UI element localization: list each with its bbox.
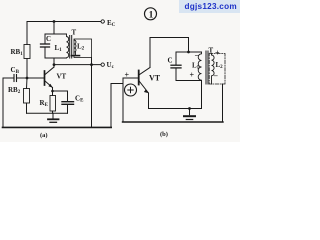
transistor VT (b) xyxy=(138,71,140,85)
wire emitter bottom (a) xyxy=(27,112,68,114)
svg-text:(a): (a) xyxy=(40,132,48,139)
svg-text:T: T xyxy=(72,29,77,37)
resistor RE xyxy=(52,91,54,96)
svg-text:(b): (b) xyxy=(160,131,168,138)
wire left edge (b) xyxy=(123,78,138,122)
inductor L1 coil (b) xyxy=(198,52,201,81)
capacitor C plates xyxy=(41,43,50,45)
svg-text:VT: VT xyxy=(57,73,67,81)
dash-dot box around L2 (b) xyxy=(209,54,225,85)
transistor VT (a) xyxy=(44,71,46,85)
resistor RB2 xyxy=(26,78,29,89)
resistor RB1 xyxy=(26,22,28,45)
watermark background xyxy=(179,0,240,13)
wire output Uc (a) xyxy=(54,64,101,66)
svg-text:C: C xyxy=(46,35,51,43)
svg-text:−: − xyxy=(195,51,200,60)
node junction on top rail xyxy=(53,20,56,23)
wire top rail (b) xyxy=(150,37,189,39)
svg-text:dgjs123.com: dgjs123.com xyxy=(185,2,237,11)
node junction output xyxy=(90,63,93,66)
svg-text:C: C xyxy=(168,57,173,65)
wire L2 to bottom rail (b) xyxy=(222,84,224,122)
svg-text:T: T xyxy=(209,47,214,55)
wire right return (a) xyxy=(110,84,112,127)
svg-text:1: 1 xyxy=(149,11,154,21)
ground under L2 (a) xyxy=(75,52,77,55)
inductor L2 (b) xyxy=(212,54,215,85)
capacitor CE xyxy=(53,90,68,92)
tank box with capacitor C and inductor L1 (a) xyxy=(45,33,67,35)
transformer core (b) xyxy=(205,51,207,84)
capacitor C (b) xyxy=(171,64,181,66)
inductor L1 coil (a) xyxy=(67,34,69,58)
terminal Uc circle xyxy=(101,63,104,66)
wire left edge down (a) xyxy=(2,78,4,127)
wire return stub from (a) xyxy=(111,83,122,85)
capacitor CB xyxy=(17,77,27,79)
wire base to transistor xyxy=(27,77,44,79)
frame bottom (a) xyxy=(3,126,112,128)
inductor L2 (a) with box xyxy=(74,39,92,58)
wire L1 down to ground rail (b) xyxy=(201,81,203,109)
terminal Ec circle xyxy=(101,20,104,23)
wire feed from rail to tank xyxy=(53,22,55,35)
svg-text:VT: VT xyxy=(149,74,161,83)
wire top rail (a) xyxy=(27,21,101,23)
transformer core (a) xyxy=(69,36,71,59)
tank wires (b) xyxy=(176,51,202,53)
svg-text:+: + xyxy=(125,71,130,80)
svg-text:+: + xyxy=(190,71,195,80)
wire emitter/ground rail (b) xyxy=(149,108,202,110)
svg-text:−: − xyxy=(214,72,219,81)
node base junction xyxy=(26,77,29,80)
ground (a) xyxy=(52,113,54,118)
symbol circled 1 xyxy=(145,8,157,20)
ground (b) xyxy=(189,109,191,115)
svg-text:+: + xyxy=(215,49,220,58)
source circle + (b) xyxy=(125,84,137,96)
wire L2 box to bottom (a) xyxy=(91,58,93,127)
bottom rail (b) xyxy=(123,121,224,123)
